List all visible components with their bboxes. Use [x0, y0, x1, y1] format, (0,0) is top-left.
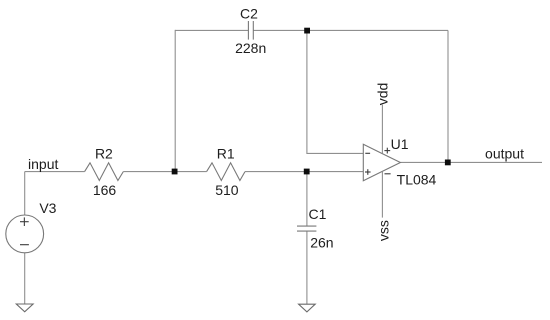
svg-text:26n: 26n [310, 235, 333, 251]
svg-text:vss: vss [376, 220, 392, 241]
svg-text:510: 510 [215, 182, 239, 198]
svg-text:V3: V3 [39, 200, 56, 216]
svg-text:R1: R1 [217, 146, 235, 162]
svg-text:C2: C2 [240, 5, 258, 21]
svg-text:output: output [485, 146, 524, 162]
svg-text:vdd: vdd [375, 83, 391, 106]
svg-text:U1: U1 [391, 136, 409, 152]
svg-text:228n: 228n [235, 40, 266, 56]
svg-text:TL084: TL084 [397, 171, 437, 187]
svg-text:C1: C1 [309, 206, 327, 222]
svg-text:R2: R2 [95, 146, 113, 162]
svg-text:input: input [28, 156, 58, 172]
svg-text:166: 166 [93, 182, 117, 198]
